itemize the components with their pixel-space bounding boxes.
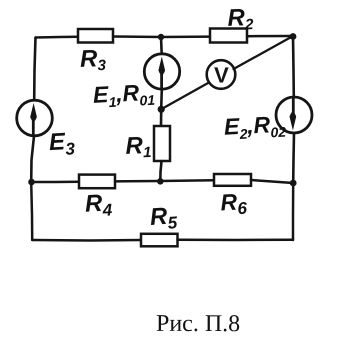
wire diagonal upper segment bbox=[234, 36, 294, 69]
wire right middle segment bbox=[292, 133, 295, 183]
wire bottom-right segment bbox=[178, 239, 294, 242]
resistor R1 bbox=[154, 126, 170, 161]
voltmeter V bbox=[207, 60, 236, 89]
node top-middle junction bbox=[158, 34, 164, 40]
wire top-right segment bbox=[247, 35, 293, 38]
svg-text:R6: R6 bbox=[220, 188, 248, 219]
node right-middle junction bbox=[290, 180, 297, 187]
node left-middle junction bbox=[28, 179, 35, 186]
wire E1 branch top stub bbox=[160, 37, 163, 54]
svg-text:R5: R5 bbox=[149, 202, 178, 234]
wire diagonal lower segment bbox=[163, 83, 209, 109]
svg-text:R1: R1 bbox=[125, 132, 152, 162]
wire right upper segment bbox=[292, 36, 295, 97]
wire left upper segment bbox=[34, 38, 35, 101]
svg-text:Рис. П.8: Рис. П.8 bbox=[156, 311, 240, 337]
resistor R2 bbox=[210, 29, 247, 43]
svg-text:R2: R2 bbox=[227, 4, 254, 34]
source E2 bbox=[276, 97, 312, 133]
wire top-middle segment bbox=[113, 35, 210, 38]
wire E1 to R1 segment bbox=[160, 89, 163, 126]
wire left lower segment bbox=[31, 136, 34, 182]
svg-text:V: V bbox=[214, 62, 229, 87]
source E3 bbox=[17, 100, 53, 136]
node diagonal junction bbox=[158, 106, 165, 113]
wire top-left segment bbox=[36, 36, 79, 39]
wire middle-left segment bbox=[32, 181, 80, 184]
resistor R5 bbox=[141, 234, 178, 247]
resistor R4 bbox=[79, 175, 115, 189]
svg-text:E1,R01: E1,R01 bbox=[92, 79, 155, 111]
svg-text:R4: R4 bbox=[84, 189, 113, 220]
resistor R3 bbox=[78, 29, 113, 43]
node middle junction bbox=[157, 178, 164, 185]
wire middle-right segment bbox=[251, 180, 293, 183]
svg-text:R3: R3 bbox=[80, 45, 107, 75]
wire right bottom drop bbox=[292, 183, 295, 240]
source E1 bbox=[144, 54, 179, 89]
wire R1 to middle node bbox=[160, 161, 161, 181]
node top-right junction bbox=[290, 33, 297, 40]
wire bottom-left segment bbox=[32, 239, 141, 242]
svg-text:E3: E3 bbox=[48, 128, 76, 160]
wire left bottom drop bbox=[31, 182, 32, 240]
wire middle-center segment bbox=[115, 180, 214, 181]
resistor R6 bbox=[214, 174, 251, 186]
